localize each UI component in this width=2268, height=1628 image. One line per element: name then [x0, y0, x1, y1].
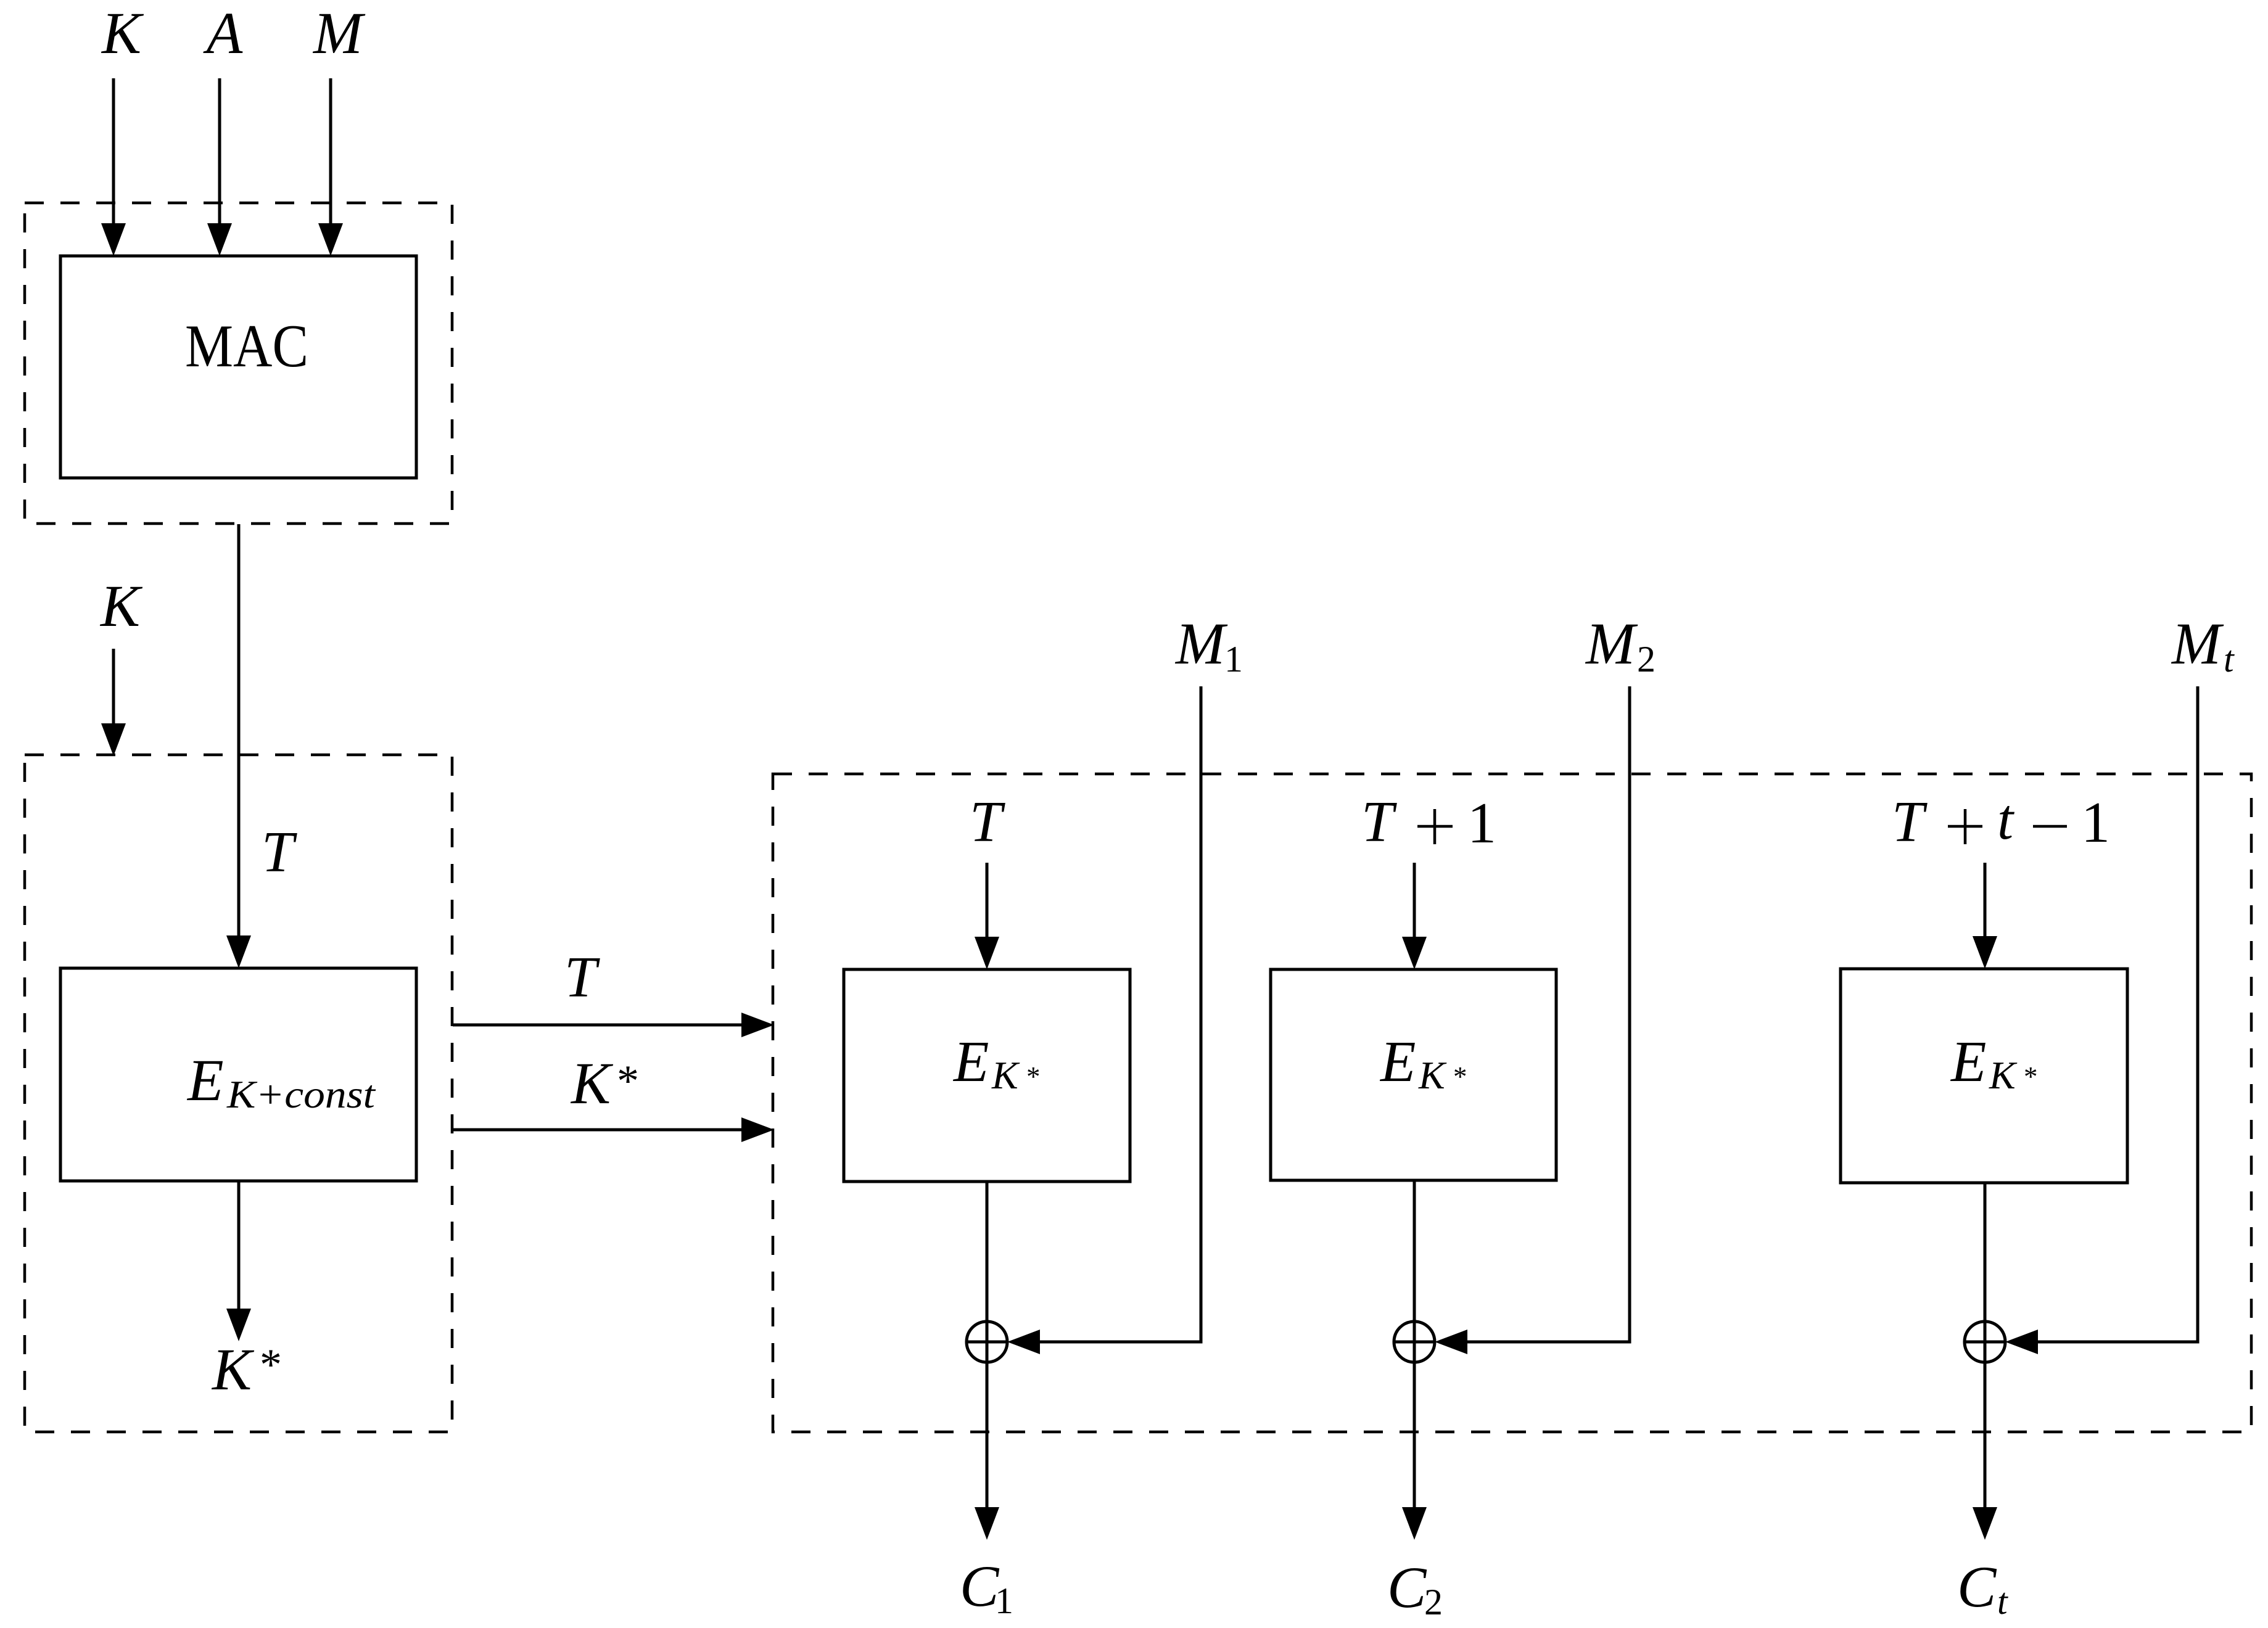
svg-text:T: T	[1892, 790, 1928, 854]
wire E_K* 3 to xor3 to C3	[1984, 1183, 1987, 1507]
E_K+const box	[60, 968, 416, 1181]
svg-text:t: t	[1997, 787, 2014, 852]
wire T from MAC group to E_K+const	[237, 524, 241, 937]
svg-text:K: K	[101, 0, 144, 66]
E_K* box 1	[844, 969, 1130, 1182]
plus sign in T+t-1	[1948, 825, 1982, 828]
wire K into MAC	[112, 78, 115, 225]
wire A into MAC	[218, 78, 221, 225]
wire E_K* 2 to xor2 to C2	[1413, 1180, 1416, 1507]
arrowhead T into E_K+const	[226, 935, 251, 968]
arrowhead C2	[1402, 1507, 1427, 1540]
svg-text:T: T	[262, 820, 297, 884]
wire T+1 into E_K* 2	[1413, 863, 1416, 938]
wire E_K* 1 to xor1 to C1	[986, 1182, 989, 1507]
wire K into key-derivation group	[112, 649, 115, 725]
svg-text:K: K	[99, 573, 143, 639]
svg-text:T: T	[1361, 790, 1397, 854]
wire K* to encryption group	[453, 1128, 743, 1132]
arrowhead K* below E_K+const	[226, 1309, 251, 1341]
arrowhead C1	[975, 1507, 999, 1540]
dashed group box MAC	[25, 203, 452, 524]
wire Mt down and into xor3	[2038, 686, 2198, 1342]
arrowhead T+1 into E_K* 2	[1402, 937, 1427, 969]
arrowhead Ct	[1973, 1507, 1997, 1540]
arrowhead M into MAC	[318, 223, 343, 256]
arrowhead K* into encryption group	[741, 1117, 774, 1142]
wire K* out of E_K+const	[237, 1181, 241, 1309]
wire M into MAC	[329, 78, 332, 225]
minus sign in T+t-1	[2033, 825, 2067, 828]
svg-text:T: T	[564, 945, 600, 1009]
MAC box	[60, 256, 416, 478]
arrowhead K into MAC	[101, 223, 126, 256]
wire M2 down and into xor2	[1467, 686, 1630, 1342]
arrowhead T into E_K* 1	[975, 937, 999, 969]
svg-text:A: A	[203, 0, 243, 66]
arrowhead T into encryption group	[741, 1013, 774, 1037]
wire T to encryption group	[453, 1024, 743, 1027]
xor2	[1394, 1322, 1435, 1362]
arrowhead T+t-1 into E_K* 3	[1973, 936, 1997, 969]
wire T+t-1 into E_K* 3	[1984, 863, 1987, 938]
dashed group box encryption	[773, 774, 2251, 1432]
xor3	[1965, 1322, 2005, 1362]
arrowhead A into MAC	[207, 223, 232, 256]
E_K* box 3	[1841, 969, 2127, 1183]
xor1	[967, 1322, 1007, 1362]
dashed group box key-derivation	[25, 755, 452, 1432]
arrowhead K into group	[101, 723, 126, 756]
arrowhead M2 into xor2	[1435, 1330, 1467, 1354]
arrowhead Mt into xor3	[2005, 1330, 2038, 1354]
wire M1 down and into xor1	[1040, 686, 1201, 1342]
E_K* box 2	[1271, 969, 1556, 1180]
arrowhead M1 into xor1	[1007, 1330, 1040, 1354]
wire T into E_K* 1	[986, 863, 989, 938]
plus sign in T+1	[1417, 825, 1453, 828]
svg-text:T: T	[970, 790, 1005, 854]
svg-text:M: M	[312, 0, 366, 66]
svg-text:MAC: MAC	[185, 313, 308, 380]
svg-text:1: 1	[2081, 791, 2110, 855]
svg-text:1: 1	[1467, 791, 1496, 855]
